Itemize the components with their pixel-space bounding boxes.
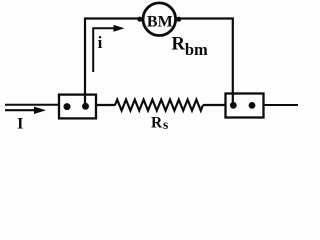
current arrow I (annotation line with arrowhead) [5,107,46,114]
wire: resistor left lead [97,104,116,106]
terminal block TB1 (left box) [59,95,96,119]
meter U1 circle [143,3,176,36]
junction dot TB2 right [249,102,256,109]
wire: left vertical riser to top rail [85,19,141,107]
svg-text:I: I [17,116,23,133]
svg-text:Rbm: Rbm [172,35,209,60]
current arrow i (annotation L-line with arrowhead) [93,25,124,72]
junction dot TB1 right [82,103,89,110]
svg-text:BM: BM [147,13,173,30]
wire: top rail right and right vertical drop [178,19,233,106]
resistor Rs zigzag [115,100,203,111]
svg-text:Rs: Rs [151,114,168,132]
junction dot TB1 left [64,103,71,110]
wire: bottom-left input wire [5,104,59,106]
junction dot TB2 left [230,102,237,109]
wire: bottom-right output wire [263,104,298,106]
wire: resistor right lead [203,104,226,106]
svg-text:i: i [98,33,103,52]
meter right terminal dot [176,17,181,22]
terminal block TB2 (right box) [226,94,264,118]
meter left terminal dot [137,17,142,22]
